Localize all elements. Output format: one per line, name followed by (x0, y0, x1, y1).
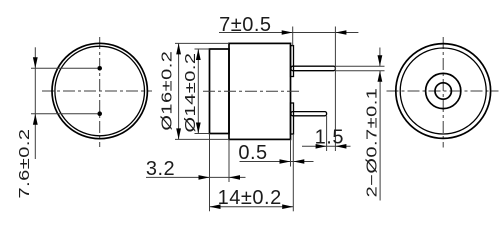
side view horizontal center line (203, 90, 302, 92)
left view inner rim circle (55, 46, 145, 136)
arrow up Ø14 (196, 49, 201, 60)
extension line Ø16 top (175, 42, 229, 44)
arrow down toward pin top edge (378, 55, 383, 66)
right view outer circle (Ø16 flange) (396, 44, 491, 139)
extension line body right edge down (290, 139, 292, 166)
right view horizontal center line (387, 90, 499, 92)
left view top pin dot (97, 66, 102, 71)
svg-text:3.2: 3.2 (146, 158, 175, 180)
text 7.6±0.2 (16, 128, 33, 198)
extension line body left edge down (228, 139, 230, 182)
svg-text:Ø16±0.2: Ø16±0.2 (158, 51, 175, 131)
right view vertical center line (442, 37, 444, 148)
svg-text:2−Ø0.7±0.1: 2−Ø0.7±0.1 (363, 88, 380, 198)
dimension line Ø0.7 lower tail (379, 71, 381, 201)
svg-text:1.5: 1.5 (315, 127, 344, 149)
arrow left toward top pin tip line (335, 144, 346, 149)
arrow right toward bottom pin tip (316, 144, 327, 149)
left view horizontal center line (42, 90, 152, 92)
arrow down at top pin leader (33, 57, 38, 68)
arrow left at 14 dim left end (210, 204, 221, 209)
dimension line 14±0.2 (210, 206, 294, 208)
dimension line Ø16 (178, 43, 180, 139)
arrow left toward body left (229, 175, 240, 180)
extension line Ø14 top (195, 48, 210, 50)
extension line at top pin tip (334, 27, 336, 152)
left view bottom pin dot (97, 111, 102, 116)
dimension line 3.2 (146, 176, 246, 178)
arrow left toward pin tip (335, 30, 346, 35)
right view middle circle (426, 73, 461, 108)
dimension line 1.5 (302, 145, 351, 147)
extension line at body right edge for 7±0.5 (292, 27, 294, 46)
arrow up at bottom pin leader (33, 114, 38, 125)
arrow down Ø16 (176, 128, 181, 139)
dimension line Ø0.7 upper tail (379, 48, 381, 67)
dimension line Ø14 (197, 49, 199, 134)
svg-text:14±0.2: 14±0.2 (218, 187, 282, 209)
left view outer circle (Ø16 housing) (52, 43, 147, 138)
svg-text:7±0.5: 7±0.5 (219, 14, 271, 36)
dimension line 0.5 (240, 161, 314, 163)
arrow up Ø16 (176, 43, 181, 54)
top pin (291, 66, 335, 71)
extension line pin bottom edge to Ø0.7 dim (335, 70, 384, 72)
side view body rectangle (Ø16) (229, 43, 291, 139)
bottom pin (291, 112, 327, 116)
svg-text:7.6±0.2: 7.6±0.2 (16, 128, 33, 198)
left view vertical center line (99, 37, 101, 147)
text 2-Ø0.7±0.1 (363, 88, 380, 198)
text Ø14±0.2 (182, 53, 199, 133)
arrow left toward boss face (293, 159, 304, 164)
leader line from top pin dot (31, 67, 97, 69)
arrow right toward pin root (282, 30, 293, 35)
extension line Ø16 bottom (175, 138, 229, 140)
arrow up toward pin bottom edge (378, 71, 383, 82)
bottom pin boss (291, 103, 294, 134)
dimension line 7.6±0.2 (34, 47, 36, 159)
extension line rim left edge down (209, 134, 211, 212)
text Ø16±0.2 (158, 51, 175, 131)
dimension line 7±0.5 (219, 32, 358, 34)
svg-text:Ø14±0.2: Ø14±0.2 (182, 53, 199, 133)
top pin boss (291, 46, 294, 77)
arrow right toward rim left (199, 175, 210, 180)
arrow right at 14 dim right end (282, 204, 293, 209)
svg-text:0.5: 0.5 (238, 142, 267, 164)
arrow down Ø14 (196, 123, 201, 134)
arrow right toward body edge (280, 159, 291, 164)
extension line Ø14 bottom (195, 133, 210, 135)
extension line bottom pin tip down (326, 116, 328, 151)
right view Ø14 body circle (400, 48, 486, 134)
leader line from bottom pin dot (31, 113, 97, 115)
side view rim rectangle (Ø14 back) (210, 49, 230, 134)
right view sound hole circle (435, 83, 451, 99)
extension line boss face down (292, 134, 294, 211)
extension line pin top edge to Ø0.7 dim (335, 65, 384, 67)
